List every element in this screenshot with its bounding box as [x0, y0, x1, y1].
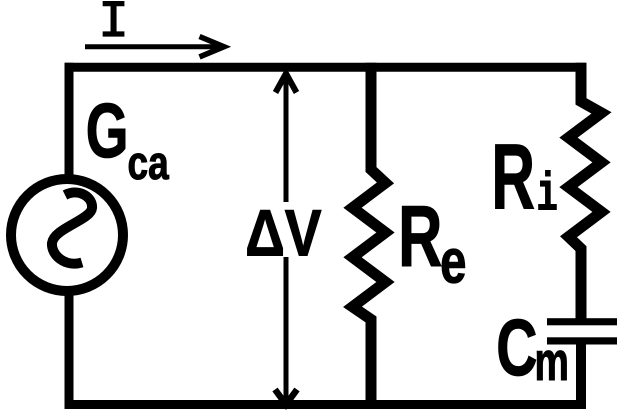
- wire left top segment: [65, 63, 74, 176]
- wire bottom: [65, 400, 586, 409]
- svg-text:ca: ca: [128, 137, 170, 190]
- AC source sine squiggle: [52, 193, 92, 264]
- current arrow I shaft: [85, 44, 222, 49]
- svg-text:I: I: [98, 0, 129, 52]
- svg-text:R: R: [398, 189, 442, 285]
- svg-text:R: R: [491, 125, 535, 229]
- voltage arrow dV shaft bottom: [284, 257, 289, 401]
- svg-text:ΔV: ΔV: [245, 197, 322, 270]
- wire right branch top with resistor Ri: [569, 63, 602, 321]
- current arrow I head: [200, 37, 225, 57]
- svg-text:G: G: [86, 88, 129, 174]
- wire middle branch with resistor Re: [353, 63, 386, 409]
- wire right branch bottom: [576, 341, 586, 409]
- wire left bottom segment: [65, 294, 74, 409]
- svg-text:i: i: [537, 165, 558, 226]
- svg-text:e: e: [440, 227, 466, 297]
- capacitor Cm top plate: [547, 318, 617, 325]
- svg-text:C: C: [496, 303, 537, 392]
- capacitor Cm bottom plate: [547, 337, 617, 344]
- voltage arrow dV up head: [276, 74, 297, 93]
- voltage arrow dV down head: [275, 390, 297, 405]
- svg-text:m: m: [535, 331, 569, 392]
- voltage arrow dV shaft top: [284, 74, 289, 202]
- wire top: [65, 63, 586, 72]
- AC source G_ca circle: [11, 179, 123, 291]
